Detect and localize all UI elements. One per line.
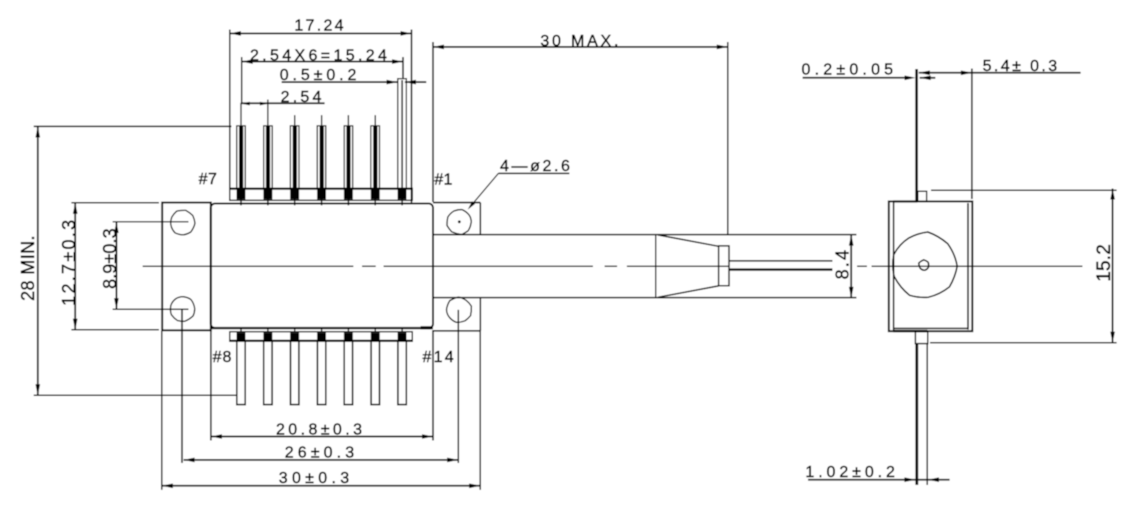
package body bottom-right corner tick [421, 326, 432, 329]
end view bottom lead left line [915, 344, 918, 485]
dim 12.7 ext top [71, 202, 158, 204]
dim 15.24 ext right [402, 57, 404, 79]
dim 0.2 line left w/arrow [803, 76, 916, 81]
top lead rail [230, 188, 412, 200]
svg-text:#14: #14 [423, 349, 456, 366]
top lead pin 5 [344, 115, 353, 205]
hole centerline bottom-left [181, 309, 183, 463]
bottom lead pin 14 [398, 327, 407, 404]
boot taper top [658, 235, 719, 246]
bottom lead pin 13 [371, 327, 380, 404]
dim 8.9 ext bottom (into hole) [113, 308, 189, 310]
end view inner bottom edge [894, 327, 968, 329]
mounting hole top-left [171, 210, 195, 235]
dim 30 ext right [479, 331, 481, 490]
callout leader w/arrow [468, 173, 499, 209]
dim 28 MIN. text [18, 235, 38, 301]
left flange plate [162, 203, 211, 331]
right flange top edge [433, 202, 480, 204]
label #14 [423, 349, 456, 366]
dim 0.5 line left w/arrow [282, 80, 398, 85]
end view inner left edge [893, 202, 895, 330]
dim 12.7 ext bottom [71, 329, 158, 331]
horizontal centerline (dash-dot axis) [143, 265, 1083, 267]
dim 28MIN ext bottom [34, 394, 236, 396]
fiber ferrule [719, 246, 729, 286]
dim 30MAX ext left [432, 42, 434, 202]
svg-text:0.2±0.05: 0.2±0.05 [802, 62, 898, 79]
dim 30+-0.3 text [279, 470, 354, 487]
dim 20.8 ext left [210, 330, 212, 441]
dim 17.24 ext right [411, 30, 413, 203]
svg-text:17.24: 17.24 [294, 18, 346, 35]
svg-text:28 MIN.: 28 MIN. [18, 235, 38, 301]
callout 4-dia2.6 text [500, 158, 573, 175]
top lead pin 2 [263, 100, 272, 206]
svg-text:1.02±0.2: 1.02±0.2 [805, 464, 898, 481]
svg-text:#1: #1 [434, 172, 452, 189]
dim 20.8+-0.3 text [276, 422, 365, 439]
snout bottom edge + 8.4 extension [433, 297, 856, 299]
dim 12.7 line [73, 203, 78, 330]
dim 0.2+-0.05 text [802, 62, 898, 79]
dim 0.5+-0.2 text [280, 67, 361, 84]
end view inner right edge [967, 203, 969, 330]
dim 0.2 line right w/arrow [920, 76, 936, 81]
dim 30MAX line [433, 45, 728, 50]
dim 5.4 ext [971, 69, 973, 200]
dim 1.02+-0.2 text [805, 464, 898, 481]
dim 12.7+-0.3 text [59, 218, 79, 306]
end view bottom lead stub [915, 332, 927, 344]
mounting hole bottom-left [170, 297, 194, 322]
dim 8.9 line [114, 222, 119, 309]
dim 5.4+-0.3 text [983, 58, 1060, 75]
bottom lead rail [230, 332, 412, 341]
bottom lead pin 12 [344, 327, 353, 404]
dim 15.2 text [1094, 244, 1115, 282]
dim 15.24 line [242, 59, 403, 64]
end view bottom lead right line [926, 344, 928, 485]
dim 30 ext left [161, 331, 163, 490]
dim 30 MAX. text [540, 33, 621, 50]
snout top edge + 8.4 extension [433, 234, 856, 236]
dim 20.8 line [211, 434, 433, 439]
bottom lead pin 10 [290, 327, 299, 404]
dim 2.54 line [241, 102, 324, 106]
end view top lead stub [918, 191, 927, 201]
end view bottom-left thick lip [893, 330, 927, 332]
dim 20.8 ext right [432, 330, 434, 441]
right flange right edge upper [479, 203, 481, 235]
dim 2.54X6=15.24 text [250, 48, 390, 65]
bottom lead pin 8 [237, 327, 246, 404]
dim 15.2 ext bottom [930, 342, 1117, 344]
dim 30MAX ext right [727, 42, 729, 235]
bottom lead pin 9 [263, 327, 272, 404]
package body bottom edge thick segment [211, 327, 433, 329]
dim 28MIN ext top [34, 125, 232, 127]
dim 30 line [162, 484, 480, 489]
label #8 [213, 349, 233, 366]
mounting hole top-right [447, 210, 471, 235]
callout underline [498, 172, 569, 174]
dim 15.24 ext left [241, 57, 243, 103]
dim 26 line [184, 458, 459, 463]
end view outer body [889, 201, 973, 331]
svg-text:30±0.3: 30±0.3 [279, 470, 354, 487]
top lead pin 3 [290, 115, 299, 205]
top lead #1 side pin 7 [398, 79, 407, 206]
fiber line upper [729, 260, 832, 262]
label #1 [434, 172, 452, 189]
dim 28MIN line [36, 127, 41, 396]
dim 15.2 ext top [931, 189, 1117, 191]
dim 2.54 text [281, 89, 325, 106]
fiber bore (end view) [919, 260, 929, 271]
dim 0.5 line right w/arrow [405, 80, 426, 85]
svg-text:4—ø2.6: 4—ø2.6 [500, 158, 573, 175]
boot taper bottom [658, 286, 719, 297]
package body (top view) [211, 204, 433, 328]
fiber line lower [729, 268, 832, 270]
dim 1.02 line [808, 477, 950, 482]
svg-text:#8: #8 [213, 349, 233, 366]
end view top lead [915, 69, 918, 201]
top lead #7 side pin 1 [237, 103, 246, 206]
dim 5.4 line [919, 71, 1081, 76]
dim 8.9+-0.3 text [100, 228, 120, 289]
dim 8.9 ext top (into hole) [113, 221, 189, 223]
bottom lead pin 11 [317, 327, 326, 404]
top lead pin 6 [371, 115, 380, 205]
dim 8.4 line [849, 235, 854, 298]
snout end vertical [655, 235, 657, 298]
dim 17.24 text [294, 18, 346, 35]
svg-text:#7: #7 [199, 171, 218, 188]
right flange bottom edge [433, 330, 480, 332]
dim 26+-0.3 text [285, 444, 358, 461]
dim 8.4 text [833, 248, 853, 280]
dim 17.24 ext left [229, 30, 231, 189]
end view top-left thick lip [893, 200, 917, 202]
dim 15.2 line [1110, 189, 1115, 343]
svg-text:26±0.3: 26±0.3 [285, 444, 358, 461]
svg-text:8.4: 8.4 [833, 248, 853, 280]
dim 17.24 line [230, 31, 412, 36]
top lead pin 4 [317, 115, 326, 205]
right flange right edge lower [479, 298, 481, 331]
label #7 [199, 171, 218, 188]
fiber nut outline (end view) [893, 232, 957, 297]
mounting hole bottom-right [447, 297, 472, 322]
hole centerline bottom-right [457, 310, 459, 463]
